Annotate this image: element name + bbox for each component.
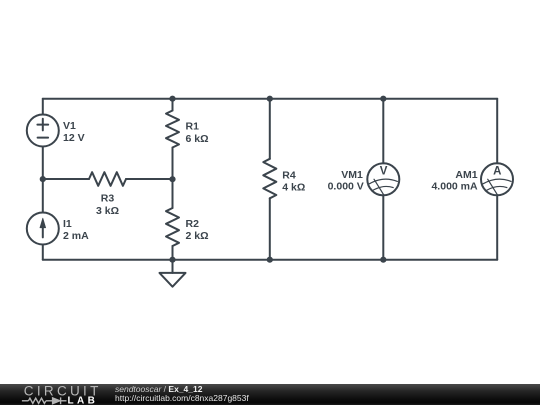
svg-text:2 kΩ: 2 kΩ	[186, 230, 209, 242]
wire top rail	[43, 98, 497, 100]
node bottom rail / R4 junction	[267, 257, 273, 263]
node top rail / R4 junction	[267, 96, 273, 102]
wire node A to R3	[43, 178, 89, 180]
svg-text:V1: V1	[63, 120, 76, 132]
node top rail / R1 junction	[169, 96, 175, 102]
wire top rail to VM1	[382, 99, 384, 164]
node A (V1 / I1 / R3)	[40, 176, 46, 182]
svg-text:A: A	[493, 166, 501, 178]
svg-text:http://circuitlab.com/c8nxa287: http://circuitlab.com/c8nxa287g853f	[115, 393, 249, 403]
wire node A to I1	[42, 179, 44, 213]
node bottom rail / ground junction	[169, 257, 175, 263]
resistor R4	[263, 159, 276, 199]
svg-text:I1: I1	[63, 218, 72, 230]
footer bar	[0, 384, 540, 405]
wire R4 to bottom rail	[269, 198, 271, 259]
svg-text:0.000 V: 0.000 V	[328, 181, 364, 193]
svg-text:12 V: 12 V	[63, 132, 85, 144]
wire AM1 to bottom rail	[496, 195, 498, 259]
wire node B to R2	[172, 179, 174, 208]
wire top rail to R4	[269, 99, 271, 159]
svg-text:R4: R4	[282, 169, 296, 181]
resistor R1	[166, 111, 179, 148]
svg-text:R2: R2	[186, 218, 200, 230]
svg-text:6 kΩ: 6 kΩ	[186, 133, 209, 145]
resistor R2	[166, 208, 179, 246]
wire R1 to node B	[172, 148, 174, 180]
resistor R3	[89, 172, 126, 186]
svg-text:3 kΩ: 3 kΩ	[96, 205, 119, 217]
svg-text:4.000 mA: 4.000 mA	[431, 181, 478, 193]
ground	[160, 260, 186, 287]
svg-text:4 kΩ: 4 kΩ	[282, 181, 305, 193]
wire V1 to node A	[42, 147, 44, 180]
svg-text:R1: R1	[186, 121, 200, 133]
wire left rail above V1	[42, 99, 44, 115]
node top rail / VM1 junction	[380, 96, 386, 102]
wire I1 to bottom rail	[42, 245, 44, 260]
svg-text:LAB: LAB	[68, 395, 99, 405]
svg-text:2 mA: 2 mA	[63, 230, 89, 242]
CircuitLab logo schematic line (resistor and diode)	[22, 397, 67, 404]
svg-text:VM1: VM1	[341, 169, 363, 181]
wire top rail to R1	[172, 99, 174, 111]
wire VM1 to bottom rail	[382, 195, 384, 259]
wire top rail to AM1	[496, 99, 498, 164]
svg-text:R3: R3	[101, 192, 115, 204]
svg-text:AM1: AM1	[455, 169, 477, 181]
svg-text:V: V	[380, 166, 388, 178]
ammeter AM1	[481, 163, 513, 195]
node B (R1 / R2 / R3)	[169, 176, 175, 182]
wire R3 to node B	[126, 178, 173, 180]
current source I1	[27, 213, 59, 245]
node bottom rail / VM1 junction	[380, 257, 386, 263]
voltage source V1	[27, 115, 59, 147]
voltmeter VM1	[367, 163, 399, 195]
wire R2 to bottom rail	[172, 246, 174, 260]
wire bottom rail	[43, 259, 497, 261]
